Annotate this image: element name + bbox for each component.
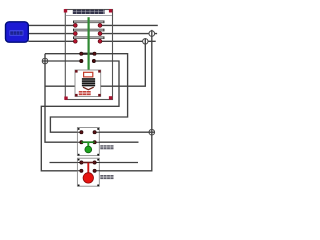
junction J3 on phase 3 [143, 39, 148, 44]
stop switch row1 stubs and terminals [77, 162, 100, 164]
aux contact row 2 terminal dots [80, 59, 83, 62]
wire from J3 down to relay coil right [101, 38, 146, 86]
relay corner handle TR [98, 70, 101, 73]
wire branch to coil left [45, 85, 75, 87]
stop switch dark red bridge [81, 162, 94, 164]
relay box (继电器) [75, 70, 101, 97]
start switch corner dots [78, 128, 80, 130]
stop switch label 停止开关 [100, 175, 113, 179]
start switch row1 stubs and terminals [77, 131, 100, 133]
start switch green button [85, 146, 92, 153]
aux contact row 2 wire left from J1 [42, 60, 80, 62]
junction J4 circle [149, 129, 155, 135]
relay corner handle TL [75, 70, 78, 73]
green actuator link line [87, 17, 89, 72]
stop switch red button [83, 173, 93, 183]
stop switch box (停止开关) [77, 158, 99, 186]
aux contact row 1 wire right going down (W_B) [50, 54, 127, 133]
contactor title separator line [66, 14, 112, 16]
J1 cross wires: up to aux row1, down to start switch row2 (W_C) [45, 54, 77, 143]
start switch row2 stubs and terminals [77, 141, 100, 143]
stop switch corner dots [78, 159, 80, 161]
dead-end wire from start row2 right [96, 141, 139, 143]
wire L1 phase line 1 [28, 24, 158, 26]
relay corner handle BL [75, 94, 78, 97]
junction J1 circle [42, 58, 48, 64]
aux contact row 1 wire left [45, 53, 80, 55]
relay coil laminated core [82, 78, 95, 86]
contactor moving bridge bar pole 3 [73, 36, 104, 39]
contactor U1 box (360交流接触器) [65, 10, 112, 100]
dead-end wire from stop row1 left [50, 162, 78, 164]
relay coil V legs [83, 87, 94, 90]
wire from J2 down through J4 to stop switch row2 right [96, 30, 152, 171]
aux contact row 1 bridge bar [80, 53, 96, 55]
contactor corner handle TL [64, 9, 67, 12]
start switch box (启动开关) [77, 128, 99, 156]
start switch green bridge and stem [81, 141, 94, 143]
stop switch row2 stubs and terminals [77, 170, 100, 172]
stop switch red stem [87, 163, 89, 174]
contactor moving bridge bar pole 1 [73, 21, 104, 24]
relay coil red cap [84, 72, 93, 77]
contactor title text 360交流接触器 [73, 10, 105, 14]
aux contact row 2 wire right going down (W_A) [41, 61, 119, 171]
relay label text 继电器 [79, 91, 91, 95]
contactor moving bridge bar pole 2 [73, 29, 104, 32]
contactor corner handle TR [109, 9, 112, 12]
contactor corner handle BL [64, 97, 67, 100]
aux contact row 1 terminal dots [80, 52, 83, 55]
contact terminal dots pole 2 [73, 32, 77, 36]
junction J2 on phase 2 [149, 31, 155, 37]
dead-end wire from stop row1 right [96, 162, 138, 164]
contact terminal dots pole 3 [73, 39, 77, 43]
contactor corner handle BR [109, 96, 112, 99]
relay corner handle BR [98, 94, 101, 97]
wire L2 phase line 2 [28, 33, 157, 35]
wire start switch row1 right to J4 [96, 131, 155, 133]
contact terminal dots pole 1 [73, 24, 77, 28]
power source box (三相电源) [6, 22, 29, 42]
wire L3 phase line 3 [28, 40, 155, 42]
start switch label 启动开关 [100, 145, 113, 149]
